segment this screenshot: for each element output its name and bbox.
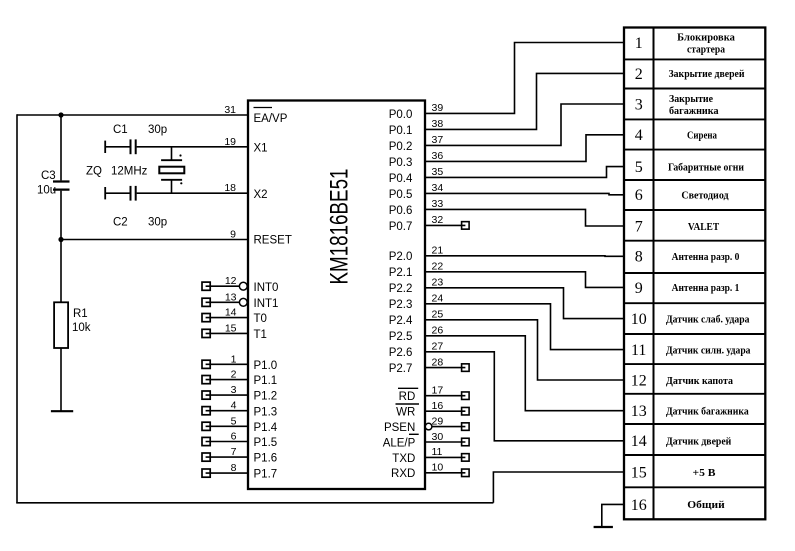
- pin 7 P1.6: [202, 446, 277, 465]
- svg-text:14: 14: [225, 307, 237, 319]
- pin 5 P1.4: [202, 415, 278, 434]
- svg-text:2: 2: [231, 369, 237, 381]
- svg-text:KM1816BE51: KM1816BE51: [326, 169, 354, 285]
- svg-text:Антенна разр. 0: Антенна разр. 0: [672, 252, 740, 263]
- svg-text:12: 12: [631, 372, 647, 389]
- connector table frame: [624, 28, 765, 520]
- table row 10: Датчик слаб. удара: [624, 303, 765, 328]
- svg-text:12: 12: [225, 275, 237, 287]
- wire C3 bottom lead: [60, 191, 62, 240]
- svg-text:R1: R1: [73, 308, 88, 320]
- svg-text:T1: T1: [254, 329, 267, 341]
- svg-text:39: 39: [432, 102, 444, 114]
- svg-text:P0.4: P0.4: [389, 173, 413, 185]
- svg-text:P1.4: P1.4: [254, 422, 278, 434]
- svg-text:INT0: INT0: [254, 282, 279, 294]
- pin 30 ALE/P: [383, 431, 469, 450]
- svg-text:4: 4: [635, 127, 643, 144]
- svg-text:P2.3: P2.3: [389, 299, 413, 311]
- svg-text:Светодиод: Светодиод: [681, 191, 729, 202]
- svg-text:Габаритные огни: Габаритные огни: [668, 162, 744, 173]
- pin 6 P1.5: [202, 431, 277, 450]
- svg-text:23: 23: [432, 277, 444, 289]
- table row 3: Закрытие багажника: [624, 89, 765, 117]
- ground GND2: [594, 526, 613, 528]
- ground GND1: [51, 410, 73, 412]
- svg-text:ALE/P: ALE/P: [383, 437, 416, 449]
- svg-text:Датчик дверей: Датчик дверей: [666, 437, 731, 448]
- table row 14: Датчик дверей: [624, 424, 765, 450]
- svg-text:1: 1: [231, 353, 237, 365]
- table row 5: Габаритные огни: [624, 150, 765, 176]
- pin 10 RXD: [391, 462, 469, 481]
- wire C2 left lead: [105, 192, 129, 194]
- svg-text:5: 5: [635, 159, 643, 176]
- svg-text:Блокировка: Блокировка: [677, 32, 735, 43]
- svg-text:P2.5: P2.5: [389, 331, 413, 343]
- svg-text:13: 13: [631, 403, 647, 420]
- svg-text:28: 28: [432, 356, 444, 368]
- table row 1: Блокировка стартера: [635, 32, 736, 55]
- table row 7: VALET: [624, 210, 765, 235]
- svg-text:P0.0: P0.0: [389, 109, 413, 121]
- pin 27 P2.6: [389, 341, 624, 441]
- svg-text:8: 8: [635, 249, 643, 266]
- svg-text:P2.4: P2.4: [389, 315, 413, 327]
- pin 25 P2.4: [389, 309, 624, 380]
- wire +5V bottom rail: [16, 502, 493, 504]
- svg-text:P0.1: P0.1: [389, 125, 413, 137]
- svg-text:3: 3: [231, 384, 237, 396]
- capacitor C2: [130, 186, 132, 201]
- svg-text:32: 32: [432, 214, 444, 226]
- svg-text:C1: C1: [113, 124, 128, 136]
- svg-text:30: 30: [432, 431, 444, 443]
- terminal C1 left end: [104, 141, 106, 153]
- svg-text:7: 7: [231, 446, 237, 458]
- pin 11 TXD: [392, 446, 469, 465]
- pin 28 P2.7: [389, 356, 469, 375]
- svg-text:35: 35: [432, 166, 444, 178]
- svg-text:P1.0: P1.0: [254, 360, 278, 372]
- wire row 16 to ground: [602, 504, 624, 526]
- pin 17 RD: [398, 385, 469, 404]
- svg-text:4: 4: [231, 400, 237, 412]
- pin 33 P0.6: [389, 198, 624, 226]
- svg-text:10: 10: [631, 311, 647, 328]
- pin 15 T1: [202, 322, 267, 341]
- svg-text:24: 24: [432, 293, 444, 305]
- svg-text:C2: C2: [113, 217, 128, 229]
- svg-text:P1.3: P1.3: [254, 406, 278, 418]
- svg-text:33: 33: [432, 198, 444, 210]
- pin 39 P0.0: [389, 43, 624, 121]
- svg-text:ZQ: ZQ: [86, 166, 102, 178]
- svg-text:37: 37: [432, 134, 444, 146]
- svg-text:30p: 30p: [148, 124, 167, 136]
- svg-text:38: 38: [432, 118, 444, 130]
- svg-text:P1.6: P1.6: [254, 453, 278, 465]
- svg-text:RD: RD: [399, 391, 416, 403]
- svg-text:16: 16: [631, 497, 647, 514]
- wire C3 top lead: [60, 115, 62, 180]
- wire X2 net (pin 18): [137, 192, 248, 194]
- pin 13 INT1: [202, 291, 278, 310]
- wire +5V riser to row 15: [493, 472, 624, 503]
- svg-text:12MHz: 12MHz: [111, 166, 148, 178]
- pin 14 T0: [202, 307, 267, 326]
- pin 26 P2.5: [389, 325, 624, 411]
- wire RESET net: [61, 239, 248, 241]
- crystal ZQ: [161, 159, 182, 161]
- svg-text:18: 18: [224, 182, 236, 194]
- pin 3 P1.2: [202, 384, 277, 403]
- svg-text:27: 27: [432, 341, 444, 353]
- svg-text:36: 36: [432, 150, 444, 162]
- svg-text:Общий: Общий: [687, 500, 724, 511]
- pin 8 P1.7: [202, 462, 277, 481]
- svg-text:P2.7: P2.7: [389, 363, 413, 375]
- svg-text:X1: X1: [254, 143, 268, 155]
- wire R1 top lead: [60, 240, 62, 303]
- capacitor C3: [53, 180, 70, 182]
- svg-text:13: 13: [225, 291, 237, 303]
- svg-text:5: 5: [231, 415, 237, 427]
- svg-text:багажника: багажника: [669, 106, 719, 117]
- svg-text:7: 7: [635, 218, 643, 235]
- svg-text:C3: C3: [41, 170, 56, 182]
- wire ZQ bottom lead: [171, 180, 173, 193]
- svg-text:P2.0: P2.0: [389, 251, 413, 263]
- node junction C3 / +5V: [58, 112, 63, 117]
- svg-text:Закрытие дверей: Закрытие дверей: [669, 69, 745, 80]
- svg-text:Датчик капота: Датчик капота: [666, 376, 734, 387]
- wire C1 left lead: [105, 146, 129, 148]
- svg-text:P0.5: P0.5: [389, 189, 413, 201]
- pin 2 P1.1: [202, 369, 277, 388]
- svg-text:P0.2: P0.2: [389, 141, 413, 153]
- pin 35 P0.4: [389, 166, 624, 185]
- table row 6: Светодиод: [624, 180, 765, 204]
- table row 9: Антенна разр. 1: [624, 273, 765, 297]
- svg-text:P1.2: P1.2: [254, 391, 278, 403]
- svg-text:P0.6: P0.6: [389, 205, 413, 217]
- svg-text:P2.2: P2.2: [389, 283, 413, 295]
- svg-text:T0: T0: [254, 313, 267, 325]
- table row 15: +5 В: [624, 455, 765, 481]
- svg-text:10: 10: [432, 462, 444, 474]
- pin 21 P2.0: [389, 245, 624, 264]
- pin 4 P1.3: [202, 400, 277, 419]
- svg-text:Датчик багажника: Датчик багажника: [666, 407, 749, 418]
- svg-text:Датчик слаб. удара: Датчик слаб. удара: [666, 314, 750, 325]
- svg-text:26: 26: [432, 325, 444, 337]
- node mark below ZQ: [180, 182, 182, 184]
- wire X1 net (pin 19): [137, 146, 248, 148]
- svg-text:1: 1: [635, 35, 643, 52]
- svg-text:34: 34: [432, 182, 444, 194]
- svg-text:14: 14: [631, 433, 647, 450]
- svg-text:P1.1: P1.1: [254, 375, 278, 387]
- capacitor C1: [130, 139, 132, 154]
- pin 29 PSEN: [384, 415, 469, 434]
- table row 8: Антенна разр. 0: [624, 241, 765, 266]
- svg-text:INT1: INT1: [254, 298, 279, 310]
- svg-text:6: 6: [635, 187, 643, 204]
- resistor R1: [54, 302, 68, 348]
- svg-text:EA/VP: EA/VP: [254, 113, 288, 125]
- pin 24 P2.3: [389, 293, 624, 350]
- pin 1 P1.0: [202, 353, 277, 372]
- svg-text:P1.5: P1.5: [254, 437, 278, 449]
- table column divider: [653, 28, 655, 520]
- svg-text:11: 11: [631, 342, 646, 359]
- svg-text:PSEN: PSEN: [384, 422, 415, 434]
- node junction C3 / RESET: [58, 237, 63, 242]
- node mark above ZQ: [179, 154, 181, 156]
- wire +5V left rail: [16, 114, 18, 503]
- wire R1 bottom lead: [60, 348, 62, 411]
- IC U1 KM1816BE51 body: [248, 101, 425, 490]
- terminal C2 left end: [104, 187, 106, 199]
- svg-text:31: 31: [224, 104, 236, 116]
- svg-text:10k: 10k: [72, 322, 91, 334]
- svg-text:WR: WR: [396, 407, 415, 419]
- pin 38 P0.1: [389, 73, 624, 136]
- pin 34 P0.5: [389, 182, 624, 201]
- table row 16: Общий: [624, 487, 765, 514]
- svg-text:19: 19: [224, 136, 236, 148]
- pin 37 P0.2: [389, 104, 624, 153]
- svg-text:8: 8: [231, 462, 237, 474]
- svg-text:9: 9: [635, 280, 643, 297]
- svg-text:Сирена: Сирена: [687, 131, 718, 142]
- svg-text:P2.6: P2.6: [389, 347, 413, 359]
- svg-text:X2: X2: [254, 189, 268, 201]
- svg-text:VALET: VALET: [688, 222, 719, 233]
- svg-text:3: 3: [635, 96, 643, 113]
- wire +5V top rail to pin 31: [17, 114, 248, 116]
- svg-text:21: 21: [432, 245, 444, 257]
- svg-text:22: 22: [432, 261, 444, 273]
- svg-text:P0.3: P0.3: [389, 157, 413, 169]
- svg-text:25: 25: [432, 309, 444, 321]
- pin 22 P2.1: [389, 261, 624, 288]
- svg-text:P2.1: P2.1: [389, 267, 413, 279]
- svg-text:11: 11: [432, 446, 443, 458]
- svg-text:2: 2: [635, 66, 643, 83]
- svg-text:16: 16: [432, 400, 444, 412]
- svg-text:P1.7: P1.7: [254, 469, 278, 481]
- svg-text:29: 29: [432, 415, 444, 427]
- svg-text:RXD: RXD: [391, 468, 415, 480]
- svg-text:P0.7: P0.7: [389, 221, 413, 233]
- table row 4: Сирена: [624, 119, 765, 144]
- table row 2: Закрытие дверей: [624, 59, 765, 82]
- svg-text:30p: 30p: [148, 217, 167, 229]
- svg-text:15: 15: [631, 464, 647, 481]
- svg-text:15: 15: [225, 322, 237, 334]
- pin 23 P2.2: [389, 277, 624, 319]
- wire ZQ top lead: [171, 147, 173, 160]
- svg-text:TXD: TXD: [392, 453, 415, 465]
- table row 12: Датчик капота: [624, 364, 765, 389]
- svg-text:6: 6: [231, 431, 237, 443]
- pin 36 P0.3: [389, 135, 624, 169]
- pin 12 INT0: [202, 275, 278, 294]
- svg-text:10u: 10u: [37, 185, 56, 197]
- table row 13: Датчик багажника: [624, 394, 765, 420]
- svg-text:17: 17: [432, 385, 444, 397]
- svg-text:стартера: стартера: [687, 44, 726, 55]
- svg-text:Датчик силн. удара: Датчик силн. удара: [666, 345, 751, 356]
- pin 32 P0.7: [389, 214, 469, 233]
- svg-text:+5 В: +5 В: [693, 468, 716, 479]
- svg-text:Антенна разр. 1: Антенна разр. 1: [672, 283, 740, 294]
- svg-text:9: 9: [230, 229, 236, 241]
- table row 11: Датчик силн. удара: [624, 334, 765, 359]
- svg-text:RESET: RESET: [254, 235, 292, 247]
- pin 16 WR: [396, 400, 470, 419]
- svg-text:Закрытие: Закрытие: [669, 94, 713, 105]
